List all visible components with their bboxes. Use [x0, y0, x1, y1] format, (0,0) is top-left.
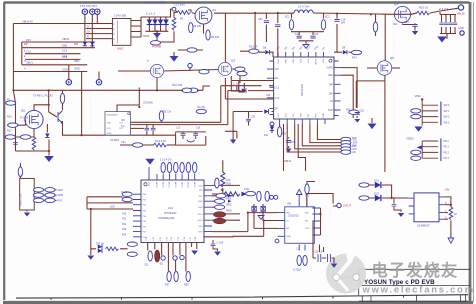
wire bottom row left	[16, 150, 50, 152]
resistor R70 oval vertical	[257, 191, 261, 201]
node ring X2	[274, 195, 278, 199]
U3 left pins	[133, 194, 141, 237]
header JP1 group	[411, 94, 451, 132]
transistor Q6 mosfet	[25, 110, 43, 128]
resistor R63 oval	[34, 193, 44, 197]
wire Q3 gate rc	[231, 76, 244, 91]
label mcu bottom parts	[144, 263, 189, 287]
transistor Q4 mosfet	[394, 6, 410, 22]
diode D1 esd	[83, 42, 87, 46]
testpoint TP3	[95, 9, 100, 14]
resistor R59 oval vertical	[186, 272, 190, 282]
wire diode array bottom rail	[146, 30, 169, 32]
node VDD dot	[421, 98, 423, 100]
wire Q6 gate	[17, 120, 25, 126]
title block outline	[359, 269, 470, 295]
svg-text:LED1: LED1	[198, 214, 204, 216]
svg-text:SWD: SWD	[58, 194, 64, 197]
wire U3 right nets	[204, 160, 264, 237]
ground mid-left	[44, 156, 54, 162]
diode D16	[264, 109, 268, 113]
svg-text:DP1: DP1	[26, 38, 32, 42]
SECTION-BOTRIGHT	[248, 179, 457, 272]
svg-text:SWD CON: SWD CON	[20, 194, 23, 206]
wire C23 stem	[213, 240, 218, 251]
resistor R8 oval	[199, 70, 209, 74]
resistor R13 oval	[249, 49, 259, 53]
svg-text:DP: DP	[24, 42, 28, 46]
wire cap C18 stem	[152, 125, 154, 136]
svg-text:Q6: Q6	[21, 109, 25, 113]
svg-text:1 1 1 1: 1 1 1 1	[146, 12, 156, 16]
resistor R74 oval	[359, 196, 369, 200]
svg-text:U2 3801: U2 3801	[110, 139, 120, 142]
svg-text:SBU: SBU	[74, 59, 79, 63]
node L1 input	[172, 7, 176, 11]
wire cc2 top run	[228, 90, 240, 92]
wire bundle left riser	[21, 42, 23, 65]
arrow TXD	[242, 192, 247, 197]
svg-text:P22: P22	[122, 223, 127, 226]
resistor R36 oval	[411, 156, 421, 160]
ground C27	[331, 264, 338, 268]
wire bjt base	[49, 105, 57, 117]
connector JP1 bracket	[440, 102, 442, 126]
connector J1 usb box	[112, 19, 141, 46]
wire R21 drop	[375, 15, 377, 37]
svg-text:DM: DM	[74, 42, 78, 46]
U1 inner pin names top row	[276, 59, 323, 66]
resistor R9 oval	[235, 67, 245, 71]
wire Q6 source down	[33, 129, 35, 137]
wire q4 aux cap	[414, 27, 416, 31]
wire snubber bottom	[299, 40, 313, 44]
resistor R66 oval	[45, 198, 55, 202]
wire diode array top rail	[146, 16, 169, 18]
svg-text:Q4: Q4	[394, 2, 398, 6]
svg-text:GND: GND	[74, 66, 80, 70]
wire J1 stub 1	[97, 23, 112, 25]
svg-text:1 2 3 4 5 6: 1 2 3 4 5 6	[160, 159, 172, 162]
wire D11 stem	[271, 125, 273, 133]
wire R3 to Q1 gate	[192, 12, 195, 15]
sheet bottom border line with zone ticks	[16, 295, 468, 302]
resistor R23 oval	[196, 109, 206, 113]
wire dp run	[233, 111, 274, 113]
label U5 pins right	[445, 202, 447, 219]
wire cap C5 lead	[441, 15, 443, 34]
capacitor C34 ntc	[181, 134, 186, 136]
wire TP3 stem	[96, 15, 98, 24]
wire row mid jog	[203, 86, 210, 90]
wire right side drops	[341, 68, 358, 110]
U1 right pin labels	[327, 67, 334, 112]
svg-text:PD 1: PD 1	[444, 146, 450, 149]
ground U4 left	[258, 216, 264, 220]
svg-text:R59: R59	[184, 284, 189, 287]
capacitor C15	[412, 25, 417, 27]
svg-text:ADC6: ADC6	[193, 182, 196, 188]
svg-text:C19: C19	[291, 141, 296, 144]
resistor R7 oval label	[151, 41, 161, 45]
arrow JP2 feed	[416, 145, 422, 149]
wire oval drop	[353, 115, 357, 119]
capacitor C12 snubber	[297, 36, 302, 38]
svg-text:SW 1: SW 1	[444, 110, 451, 113]
wire C16 stem	[15, 139, 17, 149]
svg-text:ADC4: ADC4	[180, 182, 183, 188]
diode D12	[98, 245, 102, 249]
svg-text:R20 10: R20 10	[419, 6, 428, 10]
svg-text:KEY1: KEY1	[121, 191, 128, 194]
resistor R21 oval vertical	[373, 22, 377, 32]
svg-text:WUSB3801: WUSB3801	[107, 115, 119, 117]
svg-text:C11: C11	[266, 93, 271, 97]
wire Q5 right	[392, 67, 400, 69]
wire left bus down	[13, 90, 15, 151]
svg-text:R 100K: R 100K	[20, 117, 29, 120]
wire C19 stem	[288, 137, 290, 148]
svg-text:CC1: CC1	[275, 86, 280, 89]
svg-text:GATE: GATE	[327, 67, 334, 70]
wire L2 to Q4	[313, 13, 417, 14]
testpoint TP4	[66, 80, 71, 85]
wire Q4 to R20	[411, 13, 418, 15]
U1 bottom pins	[280, 119, 325, 124]
diode D14	[375, 182, 381, 188]
wire Dm line	[22, 47, 95, 49]
svg-text:P24: P24	[122, 233, 127, 236]
svg-text:VDD: VDD	[226, 182, 231, 185]
label bundle net names right ends	[24, 37, 80, 71]
resistor R57 oval vertical	[167, 272, 171, 282]
IC U2 load switch box	[105, 112, 131, 142]
svg-text:LED: LED	[110, 206, 115, 209]
transistor Q5 mosfet	[377, 61, 392, 76]
svg-text:VIN: VIN	[121, 119, 125, 122]
resistor R6 oval	[206, 30, 210, 40]
resistor R22 oval vertical	[159, 111, 163, 121]
svg-text:D14: D14	[374, 179, 379, 183]
resistor R77 oval	[246, 191, 256, 195]
wire Dp line	[22, 41, 95, 43]
svg-text:RXD: RXD	[198, 196, 203, 198]
label mcu right nets	[226, 182, 232, 212]
resistor R45 oval vertical	[193, 163, 197, 173]
resistor R61 oval	[34, 188, 44, 192]
svg-text:GND: GND	[62, 67, 68, 71]
svg-text:ADC5: ADC5	[187, 182, 190, 188]
svg-text:SWC: SWC	[198, 201, 203, 203]
inductor L2	[294, 10, 313, 13]
ground array	[153, 33, 161, 38]
capacitor C6	[444, 23, 448, 25]
resistor R32 oval right	[349, 110, 359, 114]
wire GND line	[13, 71, 87, 73]
capacitor C28	[392, 205, 397, 207]
resistor R76 oval	[187, 48, 197, 52]
wire dp riser	[232, 112, 234, 140]
svg-text:WT6633P: WT6633P	[164, 211, 177, 215]
svg-text:C32: C32	[258, 18, 263, 21]
svg-text:CC2: CC2	[62, 54, 68, 58]
svg-text:Q1: Q1	[212, 8, 216, 12]
capacitor C13 snubber	[310, 36, 315, 38]
wire JP2 bus	[411, 141, 439, 158]
wire vcc cap drop	[334, 13, 342, 52]
wire diode array feed	[141, 17, 146, 37]
label JP2 pins	[444, 140, 450, 160]
wire D14 row1	[369, 185, 392, 198]
svg-text:VBUS: VBUS	[62, 37, 69, 41]
connector VBUS pad	[458, 5, 463, 10]
svg-text:VOUT: VOUT	[343, 204, 352, 208]
wire pin fan 1	[317, 124, 341, 140]
wire second drop	[265, 13, 267, 42]
wire R22 feed	[161, 121, 163, 122]
svg-text:PD 2: PD 2	[444, 151, 450, 154]
svg-text:CC: CC	[121, 125, 125, 128]
wire aux drop	[225, 131, 237, 138]
svg-text:VIN: VIN	[286, 212, 290, 214]
svg-text:WT6615F: WT6615F	[300, 84, 304, 97]
svg-text:C17: C17	[176, 127, 181, 129]
wire R17 row	[15, 136, 34, 138]
wire TP6 stem	[189, 68, 191, 71]
testpoint TP2	[90, 9, 95, 14]
svg-text:NC 0R: NC 0R	[197, 105, 205, 109]
wire diode D5 lead	[160, 17, 162, 31]
svg-text:D11: D11	[264, 134, 269, 137]
resistor R42 oval vertical	[174, 163, 178, 173]
wire TP5 drop	[98, 72, 100, 80]
led DS2 filled oval	[214, 218, 226, 224]
wire diode D10 stem	[46, 124, 48, 133]
svg-text:CC1: CC1	[26, 50, 32, 54]
svg-text:R13 0R: R13 0R	[249, 46, 258, 49]
resistor R48 zigzag	[106, 247, 119, 251]
svg-text:C12: C12	[295, 34, 300, 36]
wire gnd stem array	[156, 31, 158, 33]
ground C15	[412, 31, 418, 35]
svg-text:ADC0: ADC0	[155, 182, 158, 188]
svg-text:EC1: EC1	[285, 17, 290, 19]
svg-text:SDA: SDA	[300, 113, 303, 118]
wire Q4 source parts	[403, 23, 416, 24]
wire Q2 area	[118, 68, 274, 91]
svg-text:P23: P23	[122, 228, 127, 231]
label mcu left nets	[110, 191, 128, 237]
svg-text:VDD: VDD	[198, 185, 203, 187]
svg-text:D-: D-	[87, 26, 90, 29]
svg-text:EN: EN	[353, 152, 357, 154]
svg-text:1K: 1K	[454, 213, 457, 216]
SECTION-MCU	[87, 159, 264, 282]
wire spare drop 2	[298, 124, 305, 171]
svg-text:VIN: VIN	[275, 68, 279, 71]
svg-text:CC: CC	[286, 220, 290, 222]
U1 right pins	[334, 61, 341, 116]
diode D9	[343, 50, 347, 54]
power arrow U4	[296, 189, 302, 199]
wire cap C6 lead	[445, 15, 447, 34]
wire R20 to VBUS	[430, 8, 458, 13]
wire Q5 gate	[367, 67, 377, 69]
capacitor C22 dark oval	[155, 250, 160, 262]
svg-text:VDD: VDD	[107, 122, 112, 124]
resistor R62 oval	[45, 188, 55, 192]
wire Q5 drain long drop	[384, 85, 386, 173]
testpoint TP6	[188, 63, 192, 67]
wire J3 rows	[27, 190, 57, 212]
resistor R51 zigzag vertical	[221, 172, 225, 187]
wire left diode line	[259, 52, 273, 57]
ground right column	[368, 124, 377, 130]
diode D11	[270, 127, 274, 131]
power arrow down	[448, 238, 454, 243]
svg-text:L1 2.2uH: L1 2.2uH	[174, 3, 185, 7]
svg-text:VCONN: VCONN	[143, 101, 153, 105]
wire diode feed to U1	[248, 90, 274, 92]
SECTION-TOPMID	[118, 3, 294, 93]
wire CC1 line	[25, 53, 81, 55]
wire right column gnd stem	[356, 81, 385, 123]
svg-text:PD 3: PD 3	[444, 157, 450, 160]
label fan ovals	[353, 140, 358, 155]
wire Q1 drain bus	[214, 12, 294, 14]
capacitor C7	[448, 23, 452, 25]
wire U2 below row	[82, 134, 176, 136]
svg-text:R6 10K: R6 10K	[211, 36, 220, 39]
resistor R25 zigzag	[154, 143, 167, 147]
U3 bottom pins	[148, 243, 197, 272]
svg-text:VBUS: VBUS	[457, 12, 465, 16]
wire cap bank bottom rail	[440, 34, 456, 40]
svg-text:RST: RST	[316, 113, 318, 118]
resistor R29 oval fan3	[341, 144, 351, 148]
svg-text:P21: P21	[122, 218, 127, 221]
svg-text:SS54: SS54	[143, 35, 150, 38]
wire U5 right nets	[444, 197, 451, 238]
resistor R72 oval vertical	[305, 184, 309, 194]
capacitor C11 input	[275, 25, 280, 27]
svg-text:GND: GND	[107, 133, 112, 135]
node ring X3	[275, 239, 279, 243]
svg-text:CS+: CS+	[121, 141, 126, 144]
svg-text:CON USB: CON USB	[114, 14, 126, 18]
svg-text:C 22uF: C 22uF	[293, 269, 302, 272]
svg-text:P20: P20	[122, 212, 127, 215]
svg-text:TXD: TXD	[244, 187, 249, 191]
svg-text:C26 C27: C26 C27	[314, 251, 324, 254]
wire TP4 drop	[68, 65, 70, 80]
svg-text:RXD: RXD	[226, 197, 231, 200]
capacitor C32	[264, 21, 269, 23]
label J3 nets	[58, 189, 64, 203]
svg-text:VBUS-IN: VBUS-IN	[22, 19, 33, 23]
resistor R40 oval vertical	[161, 163, 165, 173]
svg-text:TXD: TXD	[199, 190, 204, 192]
diode D5	[158, 20, 164, 25]
resistor R26 oval vertical	[277, 127, 281, 137]
wire Q6 drain up	[34, 90, 49, 110]
svg-text:VIN: VIN	[287, 203, 291, 206]
wire U4 left nets	[248, 204, 278, 236]
resistor R71 oval vertical	[265, 191, 269, 201]
transistor Q7 bjt	[58, 111, 63, 124]
svg-text:电子发烧友: 电子发烧友	[372, 261, 459, 280]
IC U3 mcu body	[141, 180, 204, 243]
svg-text:ADC3: ADC3	[174, 182, 177, 188]
resistor R41 oval vertical	[167, 163, 171, 173]
svg-text:SDA: SDA	[353, 142, 358, 145]
capacitor C26 plates	[318, 254, 321, 262]
resistor R64 oval	[45, 193, 55, 197]
resistor R46 oval left	[122, 192, 132, 196]
wire ntc top rail	[176, 132, 206, 136]
resistor R5 oval	[189, 23, 193, 33]
resistor R44 oval vertical	[186, 163, 190, 173]
svg-text:ISN: ISN	[329, 92, 333, 95]
wire D14 row2	[369, 197, 409, 199]
connector plug oval	[6, 101, 16, 105]
svg-text:CS: CS	[330, 100, 334, 103]
wire primary loop left	[292, 13, 324, 32]
wire pin fan 2	[310, 124, 341, 143]
svg-text:VCC: VCC	[307, 59, 309, 64]
IC U1 body	[274, 57, 334, 119]
svg-text:VDD3: VDD3	[406, 137, 414, 141]
led DS1 filled oval	[214, 212, 226, 218]
resistor R11 oval	[188, 88, 198, 92]
wire Q1 source	[203, 24, 205, 34]
resistor R47 oval left	[122, 197, 132, 201]
wire R18 stem	[33, 137, 35, 151]
svg-text:Q5: Q5	[390, 56, 394, 60]
resistor R16 oval	[8, 123, 18, 127]
svg-text:C 104: C 104	[217, 242, 224, 245]
resistor R54 oval	[216, 194, 226, 198]
resistor R56 oval	[215, 205, 225, 209]
diode D2 esd	[90, 42, 94, 46]
svg-text:ID: ID	[87, 36, 90, 39]
svg-text:2 3 2 3: 2 3 2 3	[439, 7, 449, 11]
ground snubber	[303, 45, 309, 49]
svg-text:C15: C15	[404, 20, 409, 24]
wire cap C7 lead	[450, 15, 452, 34]
wire plug stub left	[7, 102, 16, 104]
connector GND pad	[460, 31, 464, 35]
resistor R19 oval	[21, 135, 31, 139]
svg-text:KEY2: KEY2	[121, 196, 128, 199]
label JP1 pins	[444, 104, 451, 124]
SECTION-TOPLEFT	[13, 4, 141, 91]
wire pin fan 3	[302, 124, 341, 146]
svg-text:R21: R21	[393, 23, 398, 26]
svg-text:RC1 5.1K: RC1 5.1K	[155, 139, 167, 143]
resistor R24 oval sense	[133, 143, 143, 147]
resistor R14 oval	[352, 50, 362, 54]
node ring VOUT	[337, 203, 341, 207]
capacitor C20 right of U1	[355, 113, 360, 115]
capacitor C21 oval vertical	[148, 251, 152, 261]
wire coil to R3	[174, 10, 191, 18]
capacitor C35 ntc	[193, 134, 198, 136]
capacitor C5	[439, 23, 443, 25]
svg-text:CC1: CC1	[107, 128, 112, 130]
U4 pins	[278, 198, 321, 251]
svg-text:SW 0: SW 0	[444, 104, 451, 107]
